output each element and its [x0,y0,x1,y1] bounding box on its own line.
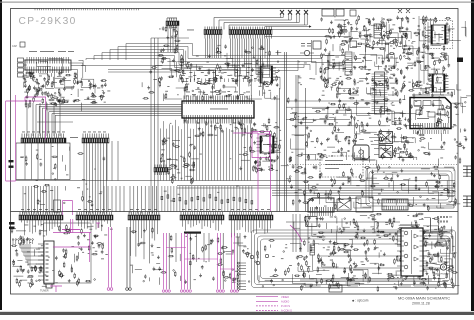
svg-text:A-CON S: A-CON S [281,309,292,313]
svg-text:2000.11.28: 2000.11.28 [412,302,430,306]
svg-text:AUDIO: AUDIO [281,299,289,303]
svg-text:CP-29K30: CP-29K30 [19,16,77,27]
svg-text:CAP: CAP [12,45,17,48]
svg-text:TUNER: TUNER [40,290,49,293]
svg-text:◆ : opt.com: ◆ : opt.com [352,299,369,303]
svg-text:MC-009A MAIN SCHEMATIC: MC-009A MAIN SCHEMATIC [398,296,450,301]
svg-text:VIDEO: VIDEO [281,295,289,299]
svg-text:P-ON S: P-ON S [281,304,290,308]
